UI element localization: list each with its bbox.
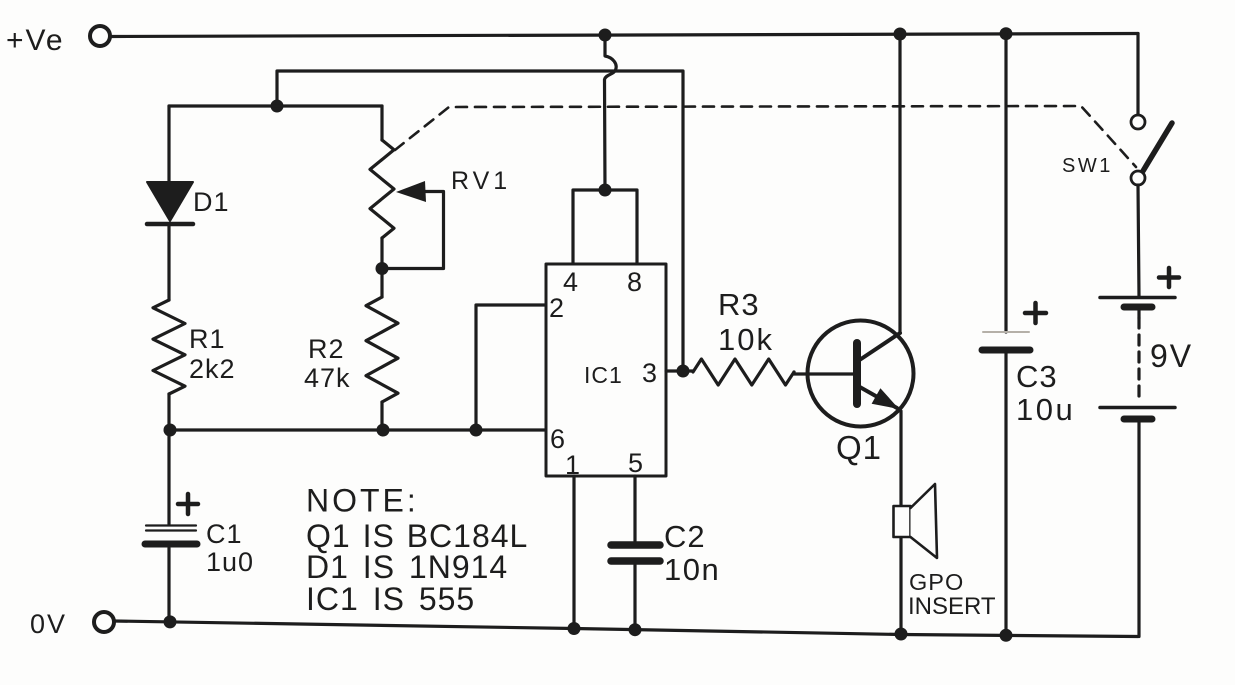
svg-text:8: 8 — [627, 267, 642, 297]
svg-text:SW1: SW1 — [1062, 155, 1113, 177]
wire switch to battery — [1138, 185, 1139, 296]
wire IC pin 5 to C2 — [633, 476, 636, 541]
battery internal dashed link — [1137, 318, 1140, 402]
svg-text:C3: C3 — [1016, 359, 1058, 394]
svg-text:R3: R3 — [718, 287, 760, 322]
wire IC pin 1 to ground — [572, 476, 575, 629]
wire C1 to 0V — [167, 548, 170, 622]
resistor R2 — [366, 297, 398, 402]
svg-text:10u: 10u — [1016, 392, 1075, 427]
capacitor C3 top plate (faint) — [983, 331, 1029, 333]
svg-text:NOTE:: NOTE: — [306, 483, 419, 519]
svg-text:2: 2 — [549, 293, 564, 323]
capacitor C1 plus label — [178, 494, 198, 514]
wire RV1 to wiper junction — [380, 238, 383, 269]
wire C3 branch top — [1004, 34, 1007, 332]
svg-text:C1: C1 — [206, 519, 243, 549]
potentiometer RV1 — [370, 140, 394, 238]
svg-text:6: 6 — [550, 424, 565, 454]
junction C1 ground — [164, 615, 177, 628]
label C3 plus — [1025, 303, 1046, 323]
junction node at pin2 drop — [470, 424, 483, 437]
wire C2 to ground — [633, 565, 636, 630]
svg-text:9V: 9V — [1150, 338, 1193, 374]
svg-text:IC1: IC1 — [584, 362, 623, 388]
capacitor C2 top plate — [611, 541, 660, 549]
junction output loop at timing top — [271, 100, 284, 113]
junction top rail at x=1006 — [1000, 27, 1013, 40]
wire D1 to R1 — [167, 225, 170, 300]
wire R3 to base — [794, 372, 853, 374]
svg-text:2k2: 2k2 — [189, 354, 236, 384]
transistor Q1 emitter — [858, 386, 897, 408]
svg-text:1u0: 1u0 — [206, 547, 254, 577]
capacitor C1 top plate line1 — [146, 524, 196, 526]
junction speaker ground — [895, 628, 908, 641]
switch SW1 lower contact — [1131, 171, 1145, 185]
wire R2 to bottom node — [380, 402, 383, 430]
wire battery to 0V rail — [1137, 422, 1140, 637]
wire RV1 top lead — [380, 106, 383, 140]
svg-text:+Ve: +Ve — [6, 24, 65, 57]
junction top rail at x=605 — [599, 29, 612, 42]
wire switch feed from top rail — [1136, 34, 1139, 116]
svg-text:RV1: RV1 — [451, 167, 511, 195]
junction on connector — [599, 184, 612, 197]
transistor Q1 collector — [858, 333, 900, 361]
wire IC pin 3 output — [666, 369, 693, 372]
capacitor C1 bottom plate — [145, 541, 197, 548]
speaker horn — [911, 484, 938, 558]
battery cell2 long plate — [1100, 406, 1175, 410]
RV1 wiper arrow — [396, 181, 426, 202]
svg-text:C2: C2 — [664, 519, 706, 554]
svg-text:INSERT: INSERT — [908, 593, 996, 620]
svg-text:10k: 10k — [718, 322, 774, 357]
battery cell1 stem — [1137, 310, 1140, 318]
diode D1 cathode bar — [147, 222, 193, 227]
resistor R1 — [153, 300, 185, 394]
svg-text:47k: 47k — [304, 363, 351, 393]
junction C3 ground — [1000, 629, 1013, 642]
junction pin1 ground — [568, 622, 581, 635]
svg-text:R2: R2 — [308, 334, 345, 364]
svg-text:D1: D1 — [193, 187, 230, 217]
wire output loop: pin3 node up and over to timing network — [277, 71, 683, 371]
switch SW1 upper contact — [1131, 115, 1145, 129]
mechanical link dashed RV1 to SW1 — [395, 106, 1136, 167]
switch SW1 lever — [1143, 123, 1172, 171]
svg-text:GPO: GPO — [909, 569, 964, 595]
wire emitter to speaker and ground — [899, 411, 902, 635]
junction pin 3 — [677, 365, 690, 378]
junction RV1 wiper — [376, 262, 389, 275]
diode D1 — [147, 182, 193, 221]
svg-text:R1: R1 — [189, 324, 226, 354]
wire collector to +Ve — [898, 34, 901, 333]
battery cell1 short plate — [1124, 304, 1152, 311]
wire R1 to bottom node — [167, 394, 170, 430]
wire 0V bottom rail — [114, 621, 1138, 637]
capacitor C3 bottom plate — [982, 347, 1030, 354]
transistor Q1 emitter arrow — [872, 388, 899, 409]
capacitor C2 bottom plate — [611, 557, 660, 565]
resistor R3 — [693, 359, 794, 385]
wire C1 branch — [167, 430, 170, 524]
svg-text:Q1: Q1 — [836, 429, 882, 466]
junction C2 ground — [629, 623, 642, 636]
IC1 555 body — [546, 264, 666, 476]
terminal +Ve — [90, 26, 110, 46]
wire anode of D1 — [167, 106, 170, 182]
svg-text:4: 4 — [563, 267, 578, 297]
wire C3 to ground — [1004, 353, 1007, 635]
wire RV1 to R2 — [380, 269, 383, 298]
svg-text:10n: 10n — [664, 552, 720, 587]
wire bottom timing node to IC pin 6 — [169, 428, 546, 431]
svg-text:0V: 0V — [30, 609, 67, 639]
wire top +Ve rail — [111, 34, 1138, 37]
wire timing network top (D1 to RV1) — [169, 104, 382, 107]
svg-text:IC1 IS 555: IC1 IS 555 — [306, 581, 475, 617]
battery plus label — [1159, 268, 1179, 287]
transistor Q1 base bar — [853, 343, 861, 404]
wire Vcc drop to IC (with hop) — [605, 35, 617, 190]
battery cell1 long plate — [1100, 296, 1175, 300]
junction top rail at x=900 — [894, 28, 907, 41]
junction node at R1 — [164, 424, 177, 437]
junction node at R2 — [377, 424, 390, 437]
transistor Q1 circle — [808, 321, 914, 427]
capacitor C1 top plate line2 — [146, 529, 196, 531]
svg-text:D1 IS 1N914: D1 IS 1N914 — [306, 549, 508, 585]
wire IC pin 2 loop — [476, 305, 546, 430]
battery cell2 short plate — [1124, 416, 1152, 423]
wire IC pins 4-8 supply connector — [573, 190, 637, 264]
svg-text:3: 3 — [642, 358, 657, 388]
RV1 wiper link — [388, 192, 444, 269]
terminal 0V — [94, 612, 114, 632]
svg-text:5: 5 — [628, 448, 643, 478]
speaker GPO insert body — [894, 506, 911, 537]
